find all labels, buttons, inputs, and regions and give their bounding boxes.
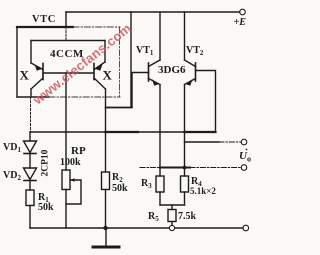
- potentiometer RP wiper: [66, 180, 81, 204]
- arrowheads: [35, 64, 193, 86]
- wire output 2 bold: [160, 167, 190, 169]
- svg-text:3DG6: 3DG6: [158, 64, 186, 76]
- svg-text:R5: R5: [148, 211, 159, 223]
- wire output 2 dash-dot right: [190, 167, 241, 169]
- wire VT1 emitter down: [159, 85, 161, 177]
- boundary dash-dot top: [73, 26, 120, 28]
- resistor R3: [156, 176, 164, 192]
- wire VTC horizontal (bold): [17, 26, 73, 28]
- transistor VT2 collector wire: [184, 12, 186, 60]
- wire rail to right terminal: [175, 227, 243, 229]
- transistor QL emitter: [31, 63, 43, 70]
- wire shared base line: [43, 72, 94, 74]
- wire R3 R4 join: [160, 204, 185, 206]
- transistor QR base bar: [93, 64, 95, 80]
- boundary dash-dot right: [119, 27, 121, 97]
- svg-text:50k: 50k: [38, 202, 54, 213]
- svg-text:R3: R3: [141, 178, 152, 190]
- wire node A horizontal: [17, 96, 49, 98]
- svg-text:X: X: [103, 68, 113, 83]
- transistor QL base bar: [42, 64, 44, 80]
- arrow VT2 emitter: [186, 79, 193, 86]
- svg-text:2CP10: 2CP10: [41, 149, 51, 176]
- diode VD1: [29, 132, 31, 141]
- wire output 1 dash-dot: [219, 141, 241, 143]
- wire faint collector to H7: [30, 97, 32, 132]
- svg-text:Uo: Uo: [239, 150, 251, 164]
- svg-text:VT2: VT2: [186, 45, 204, 57]
- wire VT2 base: [196, 71, 216, 133]
- terminal +E: [240, 9, 246, 15]
- svg-text:100k: 100k: [60, 157, 81, 168]
- wire left rail down: [16, 27, 18, 97]
- wire step from top rail: [106, 12, 132, 108]
- wire ground rail: [30, 227, 169, 229]
- wire from top rail down to VTC line: [65, 12, 67, 27]
- svg-text:RP: RP: [71, 145, 86, 157]
- svg-text:VT1: VT1: [136, 45, 154, 57]
- resistor R2: [102, 172, 110, 190]
- transistor QR emitter: [94, 62, 105, 70]
- junction dot R4 output: [183, 166, 187, 170]
- junction dot ground node: [103, 226, 107, 230]
- arrow QR emitter: [96, 64, 103, 71]
- svg-text:VTC: VTC: [32, 14, 56, 25]
- potentiometer RP box: [62, 170, 70, 190]
- resistor R4: [181, 176, 189, 192]
- wire bases down to RP: [65, 73, 67, 170]
- transistor QR collector: [94, 78, 106, 89]
- transistor VT2 collector slant: [185, 60, 196, 67]
- terminal Uo2: [241, 165, 247, 171]
- terminal Uo1: [241, 139, 247, 145]
- terminal right bottom: [243, 225, 249, 231]
- watermark www.elecfans.com: [30, 20, 134, 107]
- svg-text:VD2: VD2: [3, 170, 21, 182]
- wire VT1 base: [132, 73, 149, 108]
- sensor 4CCM box right: [104, 41, 106, 63]
- transistor VT1 collector slant: [149, 60, 161, 67]
- transistor VT2 bar: [195, 63, 197, 81]
- arrow QL emitter: [35, 64, 42, 71]
- wire QR collector down: [105, 89, 107, 172]
- sensor 4CCM box top: [31, 40, 105, 42]
- wire H6: [106, 107, 133, 109]
- diode VD2: [29, 154, 31, 169]
- wire output 1: [185, 141, 220, 143]
- transistor VT1 collector wire: [159, 12, 161, 60]
- resistor R1: [29, 181, 31, 191]
- svg-text:VD1: VD1: [3, 142, 21, 154]
- boundary dash-dot bottom: [49, 96, 120, 98]
- resistor R5: [171, 205, 173, 210]
- wire output 2 dash-dot left: [140, 167, 160, 169]
- terminal under R5: [169, 225, 174, 230]
- wire RP bottom: [65, 190, 67, 229]
- wire H7 thin continue: [138, 131, 185, 133]
- svg-text:X: X: [20, 68, 30, 83]
- arrow VT1 emitter: [152, 79, 159, 86]
- wire H7 bold segment: [106, 131, 139, 133]
- transistor VT1 bar: [148, 63, 150, 81]
- wire +E top rail: [66, 11, 240, 13]
- svg-text:7.5k: 7.5k: [178, 211, 197, 222]
- wire QL collector down: [30, 89, 32, 97]
- ground symbol: [105, 228, 107, 246]
- wire H7 mid rail: [30, 131, 106, 133]
- wire faint from VTC line to 4CCM box top: [65, 27, 67, 41]
- wire H7 right bold to VT2 base: [185, 131, 216, 133]
- svg-text:+E: +E: [234, 17, 247, 28]
- transistor QL collector: [31, 78, 43, 89]
- svg-text:50k: 50k: [112, 183, 128, 194]
- wire VT2 emitter down: [184, 85, 186, 177]
- sensor 4CCM box left: [30, 41, 32, 64]
- transistor VT2 emitter slant: [185, 79, 196, 85]
- transistor VT1 emitter slant: [149, 79, 161, 85]
- svg-text:5.1k×2: 5.1k×2: [190, 186, 216, 196]
